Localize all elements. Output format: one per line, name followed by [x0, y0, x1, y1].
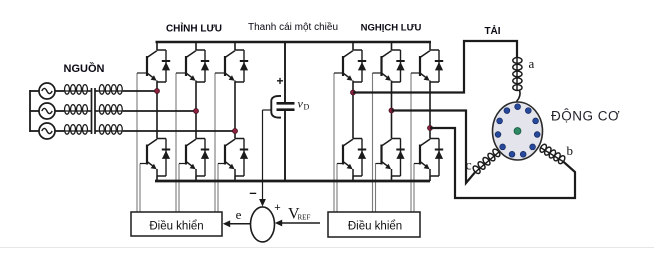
wire DC link vertical upper — [284, 42, 286, 103]
IGBT Q2 (rectifier upper) with diode D2 — [176, 50, 209, 82]
svg-text:NGUỒN: NGUỒN — [64, 62, 105, 75]
svg-text:TẢI: TẢI — [484, 24, 500, 37]
wire star bar to secondary coil 3 — [95, 130, 99, 132]
wire phase b output to coil c — [392, 111, 475, 184]
svg-text:Điều khiển: Điều khiển — [149, 221, 203, 233]
label TAI (load) — [484, 24, 500, 37]
label Thanh cai mot chieu (DC bus) — [248, 21, 338, 33]
node rectifier phase 1 junction — [155, 89, 160, 94]
gate line inverter upper Q9 to controller — [410, 73, 412, 212]
label plus sign at summing junction — [274, 202, 280, 214]
transformer primary star bar — [91, 88, 93, 134]
gate line rectifier upper Q1 to controller — [136, 73, 138, 212]
label phase b — [567, 143, 574, 158]
motor rotor slot dots — [495, 104, 540, 157]
wire top DC bus (+) — [156, 41, 432, 43]
svg-text:–: – — [249, 185, 256, 200]
svg-text:ĐỘNG CƠ: ĐỘNG CƠ — [551, 109, 620, 124]
wire inverter leg 3 drop from top bus — [429, 42, 431, 50]
wire inverter leg 3 emitter to bottom bus — [429, 176, 431, 181]
svg-text:c: c — [466, 159, 472, 174]
scan artifact faint line — [0, 247, 654, 249]
gate line rectifier upper Q2 to controller — [175, 73, 177, 212]
IGBT Q4 (rectifier lower) with diode D4 — [140, 139, 170, 177]
wire DC link vertical lower — [284, 110, 286, 181]
arrow VREF input to summing junction — [275, 220, 320, 227]
wire inverter leg 1 emitter to bottom bus — [352, 176, 354, 181]
motor M stator circle — [493, 102, 543, 160]
label CHINH LUU (rectifier) — [166, 22, 222, 35]
inductor secondary winding L1b — [99, 85, 123, 95]
capacitor C1 plates — [277, 103, 295, 109]
IGBT Q5 (rectifier lower) with diode D5 — [179, 139, 209, 177]
IGBT Q12 (inverter lower) with diode D12 — [414, 139, 443, 177]
wire star bar to secondary coil 2 — [95, 110, 99, 112]
inductor secondary winding L2b — [99, 105, 123, 115]
inductor primary winding L1a — [64, 85, 88, 95]
label NGHICH LUU (inverter) — [361, 23, 422, 34]
wire rectifier leg 2 midpoint vertical — [195, 82, 197, 139]
wire primary coil 1 to star bar — [88, 90, 92, 92]
wire inverter leg 2 midpoint vertical — [391, 82, 393, 139]
label phase c — [466, 159, 472, 174]
wire source G3 to primary coil — [55, 130, 64, 132]
AC source G3 (phase 3) — [30, 123, 55, 139]
wire rectifier leg 3 emitter to bottom bus — [234, 176, 236, 181]
label + above capacitor — [276, 74, 283, 88]
wire inverter leg 3 midpoint vertical — [429, 82, 431, 139]
IGBT Q8 (inverter upper) with diode D8 — [373, 50, 405, 82]
AC source G1 (phase 1) — [30, 83, 55, 99]
gate line rectifier lower Q6 to controller — [217, 164, 219, 213]
wire bottom DC bus (-) — [155, 180, 430, 183]
IGBT Q10 (inverter lower) with diode D10 — [337, 139, 366, 177]
inductor primary winding L3a — [64, 125, 88, 135]
svg-text:e: e — [236, 207, 242, 222]
label e error signal — [236, 207, 242, 222]
label DONG CO (motor) — [551, 109, 620, 124]
svg-text:Điều khiển: Điều khiển — [348, 221, 402, 233]
node rectifier phase 3 junction — [233, 129, 238, 134]
gate line inverter lower Q10 to controller — [336, 164, 338, 213]
label minus sign at summing junction — [249, 185, 256, 200]
inductor load coil a — [513, 57, 522, 91]
arrow e output to controller 1 — [223, 220, 250, 227]
inductor motor winding b — [539, 143, 566, 165]
wire left vertical bus joining AC sources — [29, 90, 31, 132]
inductor secondary winding L3b — [99, 125, 123, 135]
node inverter phase output 3 junction — [428, 126, 433, 131]
wire phase 1 to rectifier leg — [123, 90, 157, 92]
gate line rectifier lower Q4 to controller — [139, 164, 141, 213]
wire rectifier leg 1 emitter to bottom bus — [156, 176, 158, 181]
IGBT Q9 (inverter upper) with diode D9 — [411, 50, 443, 82]
wire phase 2 to rectifier leg — [123, 110, 196, 112]
IGBT Q7 (inverter upper) with diode D7 — [334, 50, 366, 82]
svg-text:REF: REF — [298, 214, 311, 222]
gate line rectifier upper Q3 to controller — [214, 73, 216, 212]
svg-text:a: a — [529, 56, 535, 71]
wire primary coil 2 to star bar — [88, 110, 92, 112]
IGBT Q11 (inverter lower) with diode D11 — [376, 139, 405, 177]
wire capacitor tap to summing junction — [263, 110, 272, 201]
label phase a — [529, 56, 535, 71]
arrow into summing junction top — [259, 199, 266, 207]
wire inverter leg 1 midpoint vertical — [352, 82, 354, 139]
label VREF reference voltage — [288, 206, 310, 223]
wire coil a tail to motor — [517, 90, 521, 102]
svg-text:+: + — [274, 202, 280, 214]
label vD capacitor voltage — [298, 97, 310, 112]
wire rectifier leg 3 midpoint vertical — [234, 82, 236, 139]
svg-text:D: D — [304, 103, 310, 112]
wire source G2 to primary coil — [55, 110, 64, 112]
wire inverter leg 2 emitter to bottom bus — [391, 176, 393, 181]
wire rectifier leg 3 drop from top bus — [234, 42, 236, 50]
wire rectifier leg 2 drop from top bus — [195, 42, 197, 50]
wire primary coil 3 to star bar — [88, 130, 92, 132]
capacitor C1 brace — [271, 96, 281, 118]
wire source G1 to primary coil — [55, 90, 64, 92]
svg-text:b: b — [567, 143, 574, 158]
gate line inverter lower Q12 to controller — [413, 164, 415, 213]
node inverter phase output 2 junction — [389, 108, 394, 113]
inductor motor winding c — [472, 148, 501, 175]
node inverter phase output 1 junction — [351, 90, 356, 95]
transformer secondary star bar — [94, 88, 96, 134]
svg-text:Thanh cái một chiều: Thanh cái một chiều — [248, 21, 338, 33]
IGBT Q3 (rectifier upper) with diode D3 — [215, 50, 248, 82]
summing junction circle — [251, 207, 275, 242]
gate line inverter lower Q11 to controller — [375, 164, 377, 213]
gate line inverter upper Q7 to controller — [333, 73, 335, 212]
wire inverter leg 2 drop from top bus — [391, 42, 393, 50]
node rectifier phase 2 junction — [194, 109, 199, 114]
wire inverter leg 1 drop from top bus — [352, 42, 354, 50]
svg-text:NGHỊCH LƯU: NGHỊCH LƯU — [361, 23, 422, 34]
inductor primary winding L2a — [64, 105, 88, 115]
wire rectifier leg 1 midpoint vertical — [156, 82, 158, 139]
AC source G2 (phase 2) — [30, 103, 55, 119]
IGBT Q6 (rectifier lower) with diode D6 — [218, 139, 248, 177]
wire phase a output to load — [353, 41, 517, 93]
svg-text:+: + — [276, 74, 283, 88]
motor shaft center dot — [514, 128, 521, 135]
label NGUON (source) — [64, 62, 105, 75]
gate line rectifier lower Q5 to controller — [178, 164, 180, 213]
wire rectifier leg 1 drop from top bus — [156, 42, 158, 50]
wire rectifier leg 2 emitter to bottom bus — [195, 176, 197, 181]
IGBT Q1 (rectifier upper) with diode D1 — [137, 50, 170, 82]
controller box 2 (inverter) — [328, 212, 420, 237]
wire phase 3 to rectifier leg — [123, 130, 235, 132]
svg-text:CHỈNH LƯU: CHỈNH LƯU — [166, 22, 222, 35]
gate line inverter upper Q8 to controller — [372, 73, 374, 212]
wire star bar to secondary coil 1 — [95, 90, 99, 92]
controller box 1 (rectifier) — [131, 212, 222, 236]
wire phase c output bottom run to coil b — [430, 128, 575, 198]
